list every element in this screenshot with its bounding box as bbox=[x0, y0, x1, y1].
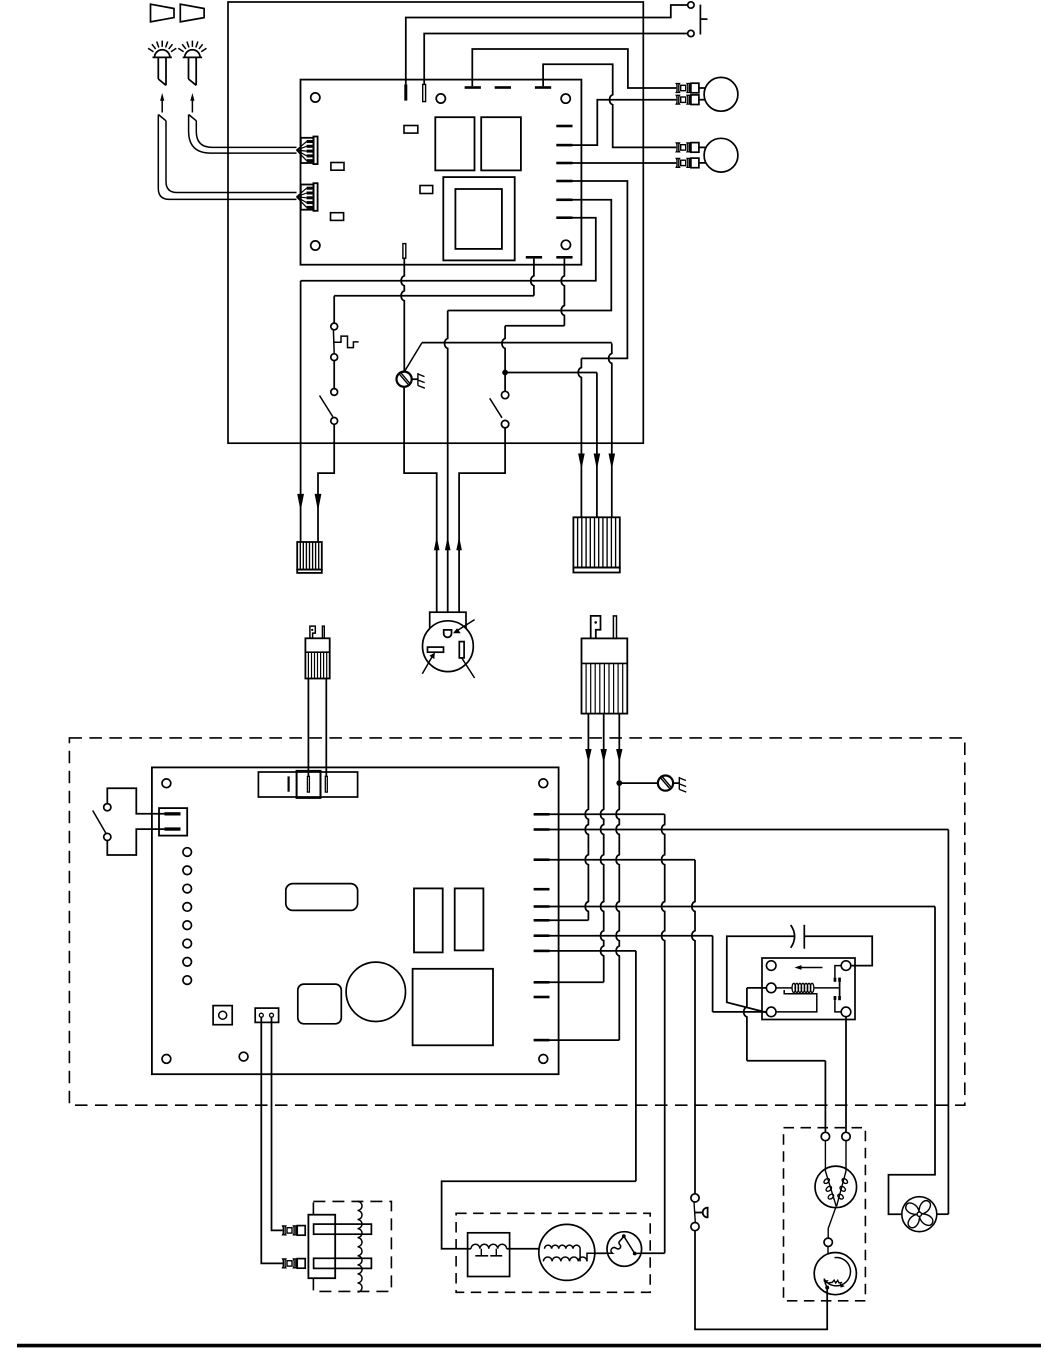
connector CN3 (igniter header on PCB2) bbox=[258, 772, 357, 797]
igniter plug PL2 prong 1 (flag) bbox=[310, 626, 315, 638]
wire - pin P3 to ground screw GS1 (two hops) bbox=[401, 258, 404, 371]
component U1 on PCB2 (rounded) bbox=[286, 884, 358, 911]
test point TP2 on PCB2 bbox=[183, 866, 192, 875]
wire - connector CB2b to bulb B2 bbox=[699, 162, 707, 164]
arrow - CN1 lead 1 bbox=[578, 454, 585, 470]
pin Q7 (PCB2 right edge) bbox=[534, 934, 550, 937]
pin RP1 (PCB1 right edge) bbox=[556, 125, 572, 128]
lamp lens L1 (trapezoid) bbox=[151, 4, 175, 22]
switch SW4 (door interlock, top right) bbox=[688, 2, 694, 8]
wire - SW3 top to connector CN4 pin 1 bbox=[107, 788, 164, 814]
pin Q3 (PCB2 right edge) bbox=[534, 858, 550, 861]
pin Q9 (PCB2 right edge) bbox=[534, 981, 550, 984]
motor MT1 (blower motor) bbox=[539, 1224, 595, 1280]
wire - SW3 bottom to connector CN4 pin 2 bbox=[107, 829, 164, 855]
connector CB2b (bulb B2 bottom lead) bbox=[676, 159, 679, 168]
bulb B2 (indicator) bbox=[704, 138, 738, 172]
test point TP4 on PCB2 bbox=[183, 903, 192, 912]
pin Q11 (PCB2 right edge) bbox=[534, 1039, 550, 1042]
pin RP4 (PCB1 right edge) bbox=[556, 180, 572, 183]
wire - PL1 line lead into box (hops 4 pin lines) bbox=[585, 745, 588, 920]
connector CB1a (bulb B1 top lead) bbox=[676, 84, 679, 93]
spark header J3 (two pins) bbox=[255, 1008, 278, 1022]
wire - capacitor C2 to relay K3 common bbox=[727, 936, 795, 1012]
mounting hole PCB2 bottom-right bbox=[539, 1055, 548, 1064]
wire - G1 to push button return bbox=[695, 1231, 827, 1330]
wire - terminal M1-T3 to spark gap bbox=[827, 1247, 829, 1261]
wire - pin RP4 to node A1 bbox=[573, 181, 628, 358]
pin P2 (PCB1 top) bbox=[423, 84, 426, 101]
connector CB2a (bulb B2 top lead) bbox=[676, 143, 679, 152]
wire - pad PD4 horizontal to SW1 bbox=[334, 295, 534, 297]
ground screw GS1 with chassis ground bbox=[397, 372, 412, 387]
wire - SW5 to pin Q1 riser bbox=[641, 1252, 665, 1254]
wire - pin Q7 to relay K3 coil low (hops K3 feed) bbox=[550, 935, 713, 937]
wire - pad PD3 to bulb B2 top (hops bulb B1 return) bbox=[543, 64, 676, 147]
transformer T1 core bbox=[455, 189, 502, 249]
arrow - CN2 left lead bbox=[297, 494, 304, 511]
fan FN1 (inducer fan) bbox=[902, 1197, 937, 1232]
door switch SW3 bbox=[104, 804, 111, 811]
wire - pin Q11 stub bbox=[550, 1039, 620, 1041]
wire - lamp LP2 leads to connector J1 bbox=[189, 115, 297, 154]
relay K2 on PCB1 bbox=[481, 117, 521, 170]
capacitor C1 on PCB2 (circle) bbox=[346, 962, 405, 1021]
mounting hole PCB2 top-right bbox=[539, 779, 548, 788]
connector J1 (lamp harness upper) bbox=[301, 138, 314, 163]
inductor box L2 bbox=[468, 1233, 510, 1277]
pad PD3 (PCB1 top) bbox=[535, 86, 551, 89]
pin Q4 (PCB2 right edge) bbox=[534, 888, 550, 891]
wire - pin Q3 to push button PB1 bbox=[550, 859, 696, 861]
spark sensor G1 (circle with arc and gap) bbox=[814, 1253, 856, 1295]
pin Q1 (PCB2 right edge) bbox=[534, 813, 550, 816]
junction dot D2 (ground lead) bbox=[617, 781, 622, 786]
arrow - PL1 ground lead bbox=[616, 749, 622, 763]
wire - RP5 drop to NEMA plug pin 2 (hops bus) bbox=[445, 311, 448, 613]
NEMA PL3 line slot bbox=[459, 642, 464, 658]
inductor L2 winding bbox=[471, 1244, 507, 1248]
relay K5 on PCB2 bbox=[455, 888, 484, 950]
component R1 (chip on PCB1) bbox=[404, 126, 418, 134]
wire - pin Q8 to motor feed bbox=[550, 950, 636, 952]
ground screw GS2 with chassis ground bbox=[658, 776, 673, 791]
control board PCB1 bbox=[301, 80, 582, 265]
wire - pin P2 to switch SW4 bbox=[424, 34, 688, 85]
wire - inductor L2 to motor MT1 bbox=[507, 1248, 539, 1250]
wire - pad PD5 horizontal to SW2 bbox=[505, 325, 564, 327]
component R3 (chip on PCB1) bbox=[420, 186, 433, 194]
wire - left drop to connector CN2 left lead bbox=[300, 281, 302, 542]
wire - pad PD1 to bulb B1 top bbox=[472, 49, 676, 88]
terminal M1-T3 bbox=[824, 1238, 832, 1246]
wire - pad PD5 drop (hops RP6 and RP5 lines) bbox=[561, 259, 564, 326]
wire - pin Q1 to motor return bbox=[550, 813, 665, 815]
test point TP7 on PCB2 bbox=[183, 958, 192, 967]
terminal M1-T1 bbox=[821, 1132, 829, 1140]
arrow - NEMA pin2 lead bbox=[445, 537, 451, 551]
test point TP6 on PCB2 bbox=[183, 939, 192, 948]
pad PD5 (PCB1 bottom) bbox=[556, 256, 572, 259]
wire - pin Q6 stub bbox=[550, 919, 589, 921]
wire - lamp LP1 leads to connector J2 bbox=[158, 115, 296, 200]
test point TP5 on PCB2 bbox=[183, 921, 192, 930]
wire - fan FN1 right lead bbox=[937, 1213, 949, 1215]
wire - relay K3 NO to capacitor C2 bbox=[804, 936, 872, 965]
pin RP6 (PCB1 right edge) bbox=[556, 216, 572, 219]
junction dot D1 bbox=[503, 370, 508, 375]
arrow - CN1 lead 2 bbox=[594, 454, 601, 470]
wire - SW1 down to connector CN2 right lead bbox=[318, 424, 334, 542]
switch SW2 (pressure switch) bbox=[501, 391, 508, 398]
wire - J3 pin 2 to igniter connector CI1 bbox=[272, 1017, 283, 1230]
transformer T2 on PCB2 bbox=[413, 969, 493, 1046]
wire - A3 drop to connector CN1 (hops A1 line) bbox=[609, 343, 612, 517]
test point TP8 on PCB2 bbox=[183, 976, 192, 985]
igniter IG1 secondary winding bbox=[358, 1201, 363, 1292]
igniter plug PL2 prong 2 bbox=[322, 626, 324, 638]
pin RP3 (PCB1 right edge) bbox=[556, 162, 572, 165]
igniter IG1 electrode 1 bbox=[314, 1224, 372, 1234]
control board PCB2 bbox=[152, 767, 559, 1074]
wire - relay K3 NC to module M1 bbox=[845, 1017, 847, 1133]
lamp lens L2 (trapezoid) bbox=[180, 4, 204, 22]
transformer T1 outline on PCB1 bbox=[443, 177, 514, 260]
NEMA PL3 ground slot bbox=[444, 630, 452, 637]
connector CN1 (line-voltage harness) bbox=[573, 517, 619, 567]
power plug PL1 body bbox=[582, 638, 628, 713]
wire - PL1 neutral lead down bbox=[603, 714, 605, 745]
bulb B1 (indicator) bbox=[704, 77, 738, 111]
wire - bus to arrow drop A3 bbox=[422, 342, 612, 344]
NEMA PL3 line slot pointer bbox=[462, 658, 475, 678]
connector CB1b (bulb B1 bottom lead) bbox=[676, 95, 679, 104]
test point TP3 on PCB2 bbox=[183, 884, 192, 893]
igniter plug PL2 body bbox=[305, 638, 329, 678]
arrow - NEMA pin1 lead bbox=[434, 537, 440, 551]
pin RP5 (PCB1 right edge) bbox=[556, 199, 572, 202]
wire - pin Q5 to fan left lead bbox=[550, 906, 936, 908]
blower assembly M2 dashed box bbox=[456, 1213, 650, 1292]
pin P3 (PCB1 bottom) bbox=[403, 244, 406, 259]
wire - D1 to arrow drop A2 (node line) bbox=[505, 372, 597, 374]
NEMA PL3 neutral slot arrow bbox=[422, 655, 433, 673]
inductor L2 core taps bbox=[480, 1249, 482, 1256]
igniter IG1 dashed box bbox=[313, 1201, 391, 1291]
wire - pin Q9 stub bbox=[550, 981, 604, 983]
wire - GS1 down to NEMA plug pin 1 bbox=[404, 387, 437, 612]
pin RP2 (PCB1 right edge) bbox=[556, 144, 572, 147]
wire - pin P1 to switch SW4 bbox=[406, 5, 688, 84]
relay K1 on PCB1 bbox=[435, 117, 474, 170]
wire - pin RP5 to node A2 bbox=[448, 200, 612, 311]
arrow - CN1 lead 3 bbox=[609, 454, 616, 470]
wire - relay K3 coil high to module M1 (hops Q7 line) bbox=[747, 987, 767, 989]
wire - pin RP6 to left drop bbox=[301, 218, 596, 281]
mounting hole PCB2 bottom-mid bbox=[239, 1052, 248, 1061]
component R4 (chip on PCB1) bbox=[331, 213, 344, 221]
wire - GS1 diagonal to bus bbox=[405, 343, 422, 371]
mounting hole PCB1 top-left bbox=[311, 93, 320, 102]
igniter IG1 electrode 2 bbox=[314, 1258, 372, 1268]
wire - SW2 drop (hops bus) bbox=[502, 326, 505, 392]
wire - SW2 down to NEMA plug pin 3 bbox=[459, 428, 505, 612]
mounting hole PCB2 top-left bbox=[162, 779, 171, 788]
mounting hole PCB1 top-right bbox=[561, 94, 570, 103]
pin Q5 (PCB2 right edge) bbox=[534, 905, 550, 908]
capacitor C2 (run capacitor) bbox=[791, 925, 795, 948]
relay K4 on PCB2 bbox=[414, 888, 443, 952]
wire - PL1 ground lead into box (hops 6 pin lines) bbox=[616, 745, 619, 1040]
arrow - PL1 neutral lead bbox=[601, 749, 607, 763]
wire - coil L1 to terminal M1-T3 bbox=[828, 1206, 836, 1238]
component R2 (chip on PCB1) bbox=[331, 163, 344, 171]
pad PD4 (PCB1 bottom) bbox=[526, 256, 542, 259]
wire - D2 to ground screw GS2 bbox=[622, 782, 658, 784]
arrow - CN2 right lead bbox=[315, 494, 322, 511]
wire - pad PD4 to limit switch SW1 (hops RP6 line) bbox=[531, 259, 534, 296]
centrifugal switch SW5 bbox=[607, 1232, 642, 1267]
wire - connector CB1a to bulb B1 bbox=[699, 87, 707, 89]
NEMA PL3 ground slot arrow bbox=[455, 620, 475, 632]
component U2 on PCB2 (rounded square) bbox=[298, 984, 342, 1024]
power plug PL1 prong 2 bbox=[613, 616, 616, 639]
connector CI1 (igniter lead 1) bbox=[283, 1226, 286, 1235]
wire - pin RP2 to bulb B1 bottom bbox=[573, 100, 677, 145]
connector CI2 (igniter lead 2) bbox=[283, 1259, 286, 1268]
arrow - NEMA pin3 lead bbox=[456, 537, 462, 551]
wire - pin RP3 to bulb B2 bottom bbox=[573, 162, 677, 164]
wire - connector CB1b to bulb B1 bbox=[699, 99, 707, 101]
blower compartment dashed box bbox=[69, 738, 964, 1105]
wire - PL1 line lead down bbox=[587, 714, 589, 745]
terminal M1-T2 bbox=[842, 1132, 850, 1140]
igniter IG1 body bbox=[308, 1215, 335, 1279]
pin P1 (PCB1 top, filled) bbox=[404, 84, 407, 100]
pad PD2 (PCB1 top) bbox=[495, 86, 511, 89]
mounting hole PCB2 bottom-left bbox=[162, 1055, 171, 1064]
connector J2 (lamp harness lower) bbox=[301, 185, 314, 210]
arrow - PL1 line lead bbox=[585, 749, 591, 763]
wire - connector CB2a to bulb B2 bbox=[699, 146, 707, 148]
push button PB1 (manual reset) bbox=[691, 1194, 699, 1202]
wire - PL1 neutral lead into box (hops 6 pin lines) bbox=[601, 745, 604, 982]
wire - J3 pin 1 to igniter connector CI2 bbox=[261, 1017, 282, 1263]
indicator lamp LP2 bbox=[178, 48, 183, 51]
pin Q6 (PCB2 right edge) bbox=[534, 919, 550, 922]
NEMA receptacle PL3 body bbox=[423, 621, 474, 672]
power plug PL1 prong 1 (flag with hole) bbox=[591, 616, 601, 639]
spark coil L1 (circle with windings) bbox=[815, 1166, 857, 1208]
wire - PL1 ground lead down bbox=[618, 714, 620, 745]
enclosure box (furnace cabinet, upper) bbox=[228, 2, 643, 443]
page rule (bottom) bbox=[17, 1344, 1041, 1348]
NEMA receptacle PL3 plate bbox=[430, 612, 466, 627]
test point TP1 on PCB2 bbox=[183, 848, 192, 857]
component U3 with hole bbox=[213, 1006, 232, 1025]
pin Q8 (PCB2 right edge) bbox=[534, 950, 550, 953]
indicator lamp LP1 bbox=[148, 48, 153, 51]
wire - pin Q2 to fan right lead bbox=[550, 829, 949, 831]
mounting hole PCB1 bottom-left bbox=[311, 241, 320, 250]
wire - motor MT1 to centrifugal switch SW5 bbox=[595, 1252, 607, 1254]
pin Q2 (PCB2 right edge) bbox=[534, 828, 550, 831]
connector CN2 (low-voltage harness) bbox=[297, 542, 322, 570]
ignition module M1 dashed box bbox=[784, 1128, 866, 1301]
wire - A2 drop to connector CN1 bbox=[596, 373, 598, 518]
relay K3 (blower relay) bbox=[762, 958, 855, 1020]
mounting hole PCB1 mid-top bbox=[436, 94, 445, 103]
wire - A1 drop to connector CN1 (hops D1 line) bbox=[578, 358, 581, 517]
wire - PL2 to PCB2 connector CN3 bbox=[307, 679, 309, 777]
connector CN4 (door switch header) bbox=[159, 808, 187, 836]
NEMA PL3 neutral slot bbox=[428, 647, 444, 652]
pin Q10 (PCB2 right edge) bbox=[534, 996, 550, 999]
limit switch SW1 (with step actuator) bbox=[333, 296, 335, 323]
pad PD1 (PCB1 top) bbox=[465, 86, 481, 89]
mounting hole PCB1 bottom-right bbox=[561, 240, 570, 249]
